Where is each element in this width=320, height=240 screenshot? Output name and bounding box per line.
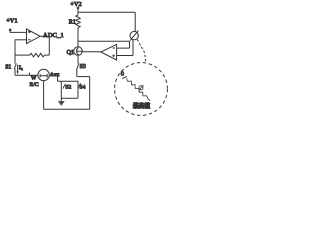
meter W circle <box>38 69 49 80</box>
label ADC_1 <box>43 32 64 39</box>
wire Q1 node to U2 upper input jog <box>78 41 130 48</box>
mechanical link (dashed) <box>137 39 145 62</box>
wire bottom rail <box>44 108 90 110</box>
svg-text:R1: R1 <box>69 20 76 26</box>
label S3 <box>80 64 86 70</box>
switch S4 <box>78 81 81 98</box>
switch S1 <box>14 55 16 75</box>
label R/C <box>30 82 39 88</box>
svg-text:S1: S1 <box>5 65 11 71</box>
transistor Q1 internals <box>77 47 83 55</box>
label Q1 <box>67 50 74 56</box>
svg-text:W: W <box>31 75 37 81</box>
wire inverting input <box>15 39 27 41</box>
wire to S3 branch <box>77 76 90 78</box>
switch S2 <box>61 81 65 98</box>
wire V2 down to R1 <box>77 8 79 15</box>
dial zero label <box>121 71 124 78</box>
dial resistive element (zigzag) <box>127 78 151 100</box>
potentiometer circle <box>130 31 138 39</box>
wire feedback left vertical <box>14 40 16 55</box>
op-amp U1 triangle <box>27 29 41 44</box>
wire Aux to S4 column <box>58 80 78 82</box>
current arrow Ia <box>17 65 19 72</box>
wire op-amp U1 output <box>40 35 49 37</box>
wire V1 to op-amp non-inverting input <box>10 30 26 33</box>
wire top rail to potentiometer <box>78 12 135 32</box>
dial wiper line <box>139 85 144 90</box>
svg-text:+V2: +V2 <box>70 1 81 8</box>
wire feedback bottom right <box>44 54 49 56</box>
dial zero tick <box>122 76 127 78</box>
node +V1 label <box>6 17 17 24</box>
label max value <box>133 102 151 110</box>
node V1 terminal dot <box>9 29 12 32</box>
wire meter down to bottom rail <box>43 80 45 109</box>
switch S3 <box>76 55 79 76</box>
svg-text:ADC_1: ADC_1 <box>43 32 64 39</box>
label S1 <box>5 65 11 71</box>
wire rail up right side <box>89 77 91 110</box>
svg-text:S3: S3 <box>80 64 86 70</box>
wire Aux stub <box>57 76 59 81</box>
svg-text:S2: S2 <box>65 85 71 91</box>
junction tick <box>29 73 31 76</box>
resistor feedback (zigzag) <box>30 53 45 57</box>
svg-text:最高值: 最高值 <box>133 102 151 110</box>
op-amp U2 triangle (pointing left) <box>101 44 117 60</box>
op-amp U1 plus mark <box>28 31 31 34</box>
svg-text:R/C: R/C <box>30 82 39 88</box>
label R1 <box>69 20 76 26</box>
dial dashed circle <box>115 63 168 116</box>
svg-text:Aux: Aux <box>50 72 60 78</box>
label Ia <box>19 65 23 71</box>
op-amp U2 plus mark <box>112 55 114 57</box>
wire Q1 base to op-amp U2 output <box>82 51 101 53</box>
svg-text:a: a <box>21 66 23 71</box>
svg-text:+V1: +V1 <box>6 17 17 24</box>
power +V2 label <box>70 1 81 8</box>
wire output down to feedback <box>48 36 50 55</box>
wire S1 to meter W <box>15 74 38 76</box>
op-amp U1 minus mark <box>28 39 31 41</box>
wire S2-S4 cross link <box>61 97 78 99</box>
ground arrow <box>60 98 62 101</box>
svg-text:Q1: Q1 <box>67 50 74 56</box>
resistor R1 (vertical zigzag) <box>76 15 80 28</box>
svg-text:0: 0 <box>121 71 124 78</box>
wire feedback bottom left <box>15 54 30 56</box>
label S4 <box>80 84 86 90</box>
label W <box>31 75 37 81</box>
transistor Q1 circle <box>74 47 83 56</box>
meter W coil symbol <box>40 74 47 78</box>
dial wiper pivot <box>139 86 143 90</box>
op-amp U2 minus mark <box>113 47 115 49</box>
svg-text:S4: S4 <box>80 84 86 90</box>
node V2 terminal dot <box>77 7 80 10</box>
wire potentiometer down to U2 lower input <box>117 40 133 56</box>
label Aux <box>50 72 60 78</box>
potentiometer wiper slash <box>130 31 138 41</box>
wire R1 to Q1 <box>77 28 79 47</box>
label S2 <box>65 85 71 91</box>
